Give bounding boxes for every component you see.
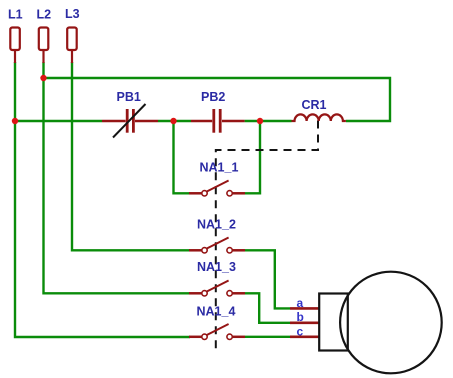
svg-text:NA1_3: NA1_3: [197, 260, 236, 274]
svg-text:a: a: [297, 296, 304, 310]
svg-text:NA1_1: NA1_1: [200, 161, 239, 175]
svg-text:c: c: [297, 324, 304, 338]
svg-text:PB1: PB1: [117, 90, 141, 104]
svg-text:L1: L1: [8, 8, 23, 22]
svg-text:b: b: [297, 310, 304, 324]
svg-text:PB2: PB2: [201, 90, 225, 104]
svg-text:CR1: CR1: [302, 98, 327, 112]
svg-text:L3: L3: [65, 7, 80, 21]
svg-text:NA1_4: NA1_4: [197, 304, 236, 318]
svg-text:NA1_2: NA1_2: [197, 217, 236, 231]
svg-text:L2: L2: [37, 8, 52, 22]
